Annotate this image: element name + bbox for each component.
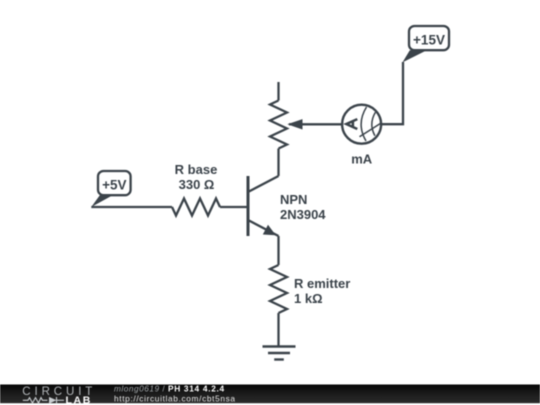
wire R emitter to ground [277, 313, 279, 347]
wiper arrow [289, 123, 343, 125]
svg-text:R base: R base [175, 162, 218, 177]
wire R base to Q1 base [220, 206, 248, 208]
transistor Q1 NPN 2N3904 [248, 176, 326, 236]
svg-text:+15V: +15V [413, 33, 445, 48]
svg-text:330 Ω: 330 Ω [179, 177, 215, 192]
svg-text:mlong0619 / PH 314 4.2.4: mlong0619 / PH 314 4.2.4 [114, 384, 225, 394]
svg-text:mA: mA [351, 151, 373, 166]
svg-text:NPN: NPN [280, 192, 307, 207]
svg-text:1 kΩ: 1 kΩ [294, 291, 323, 306]
svg-text:R emitter: R emitter [294, 276, 350, 291]
wire ammeter to +15V [381, 62, 403, 124]
ammeter M1 [342, 105, 381, 167]
flag +15V [403, 26, 450, 62]
svg-text:+5V: +5V [102, 177, 126, 192]
wire +5V to R base [91, 206, 172, 208]
wire emitter to R emitter [277, 236, 279, 265]
potentiometer R1 [270, 82, 343, 176]
resistor R base 330 ohm [172, 162, 220, 216]
svg-text:2N3904: 2N3904 [280, 207, 326, 222]
svg-text:http://circuitlab.com/cbt5nsa: http://circuitlab.com/cbt5nsa [114, 393, 236, 403]
ground [263, 347, 296, 360]
resistor R emitter 1 k [270, 265, 350, 313]
CircuitLab logo [22, 386, 96, 405]
flag +5V [91, 171, 130, 207]
svg-text:LAB: LAB [66, 394, 92, 405]
